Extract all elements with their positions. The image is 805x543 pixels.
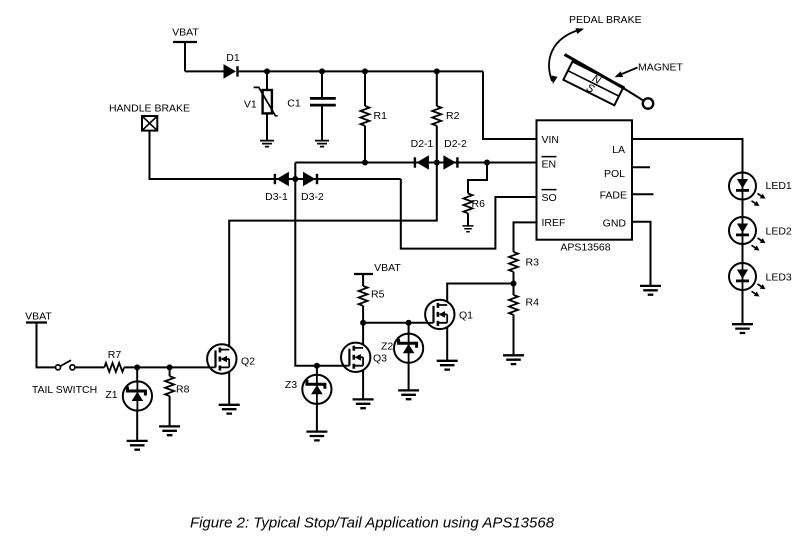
svg-text:LA: LA (612, 144, 625, 156)
svg-text:TAIL SWITCH: TAIL SWITCH (32, 384, 97, 396)
svg-text:FADE: FADE (600, 190, 627, 202)
svg-text:R6: R6 (472, 198, 486, 210)
svg-text:VBAT: VBAT (25, 311, 52, 323)
svg-text:R7: R7 (108, 349, 122, 361)
svg-text:Q1: Q1 (459, 310, 473, 322)
svg-text:V1: V1 (244, 99, 257, 111)
svg-text:Z2: Z2 (381, 341, 393, 353)
svg-text:D1: D1 (226, 52, 240, 64)
svg-text:LED1: LED1 (766, 180, 792, 192)
svg-text:D3-1: D3-1 (265, 191, 288, 203)
svg-text:POL: POL (604, 168, 625, 180)
svg-text:R5: R5 (371, 289, 385, 301)
svg-text:R3: R3 (526, 257, 540, 269)
svg-text:VIN: VIN (542, 134, 560, 146)
svg-text:VBAT: VBAT (374, 262, 401, 274)
svg-text:LED3: LED3 (766, 271, 792, 283)
svg-text:PEDAL BRAKE: PEDAL BRAKE (569, 14, 642, 26)
svg-text:GND: GND (603, 217, 627, 229)
svg-text:IREF: IREF (542, 217, 566, 229)
svg-text:SO: SO (542, 192, 557, 204)
svg-text:Figure 2: Typical Stop/Tail Ap: Figure 2: Typical Stop/Tail Application … (190, 515, 555, 532)
svg-text:Z3: Z3 (285, 379, 297, 391)
svg-text:D3-2: D3-2 (301, 191, 324, 203)
svg-text:HANDLE BRAKE: HANDLE BRAKE (109, 103, 190, 115)
svg-text:Q2: Q2 (241, 356, 255, 368)
svg-text:EN: EN (542, 159, 557, 171)
svg-text:VBAT: VBAT (172, 26, 199, 38)
svg-text:D2-2: D2-2 (444, 138, 467, 150)
svg-text:R4: R4 (526, 297, 540, 309)
svg-text:APS13568: APS13568 (560, 242, 610, 254)
svg-text:R8: R8 (176, 384, 190, 396)
svg-text:R1: R1 (374, 110, 388, 122)
svg-text:LED2: LED2 (766, 225, 792, 237)
svg-text:MAGNET: MAGNET (638, 62, 684, 74)
svg-text:Q3: Q3 (373, 353, 387, 365)
svg-text:D2-1: D2-1 (411, 138, 434, 150)
svg-text:C1: C1 (287, 98, 301, 110)
svg-text:R2: R2 (446, 110, 460, 122)
svg-text:Z1: Z1 (105, 389, 117, 401)
